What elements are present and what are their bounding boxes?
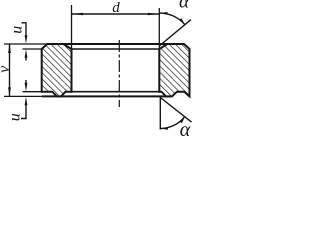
alpha bottom dimension arc [160,117,184,129]
wire bottom inner chamfer line C left extension [23,91,42,93]
arrowhead v top [8,44,11,53]
wire top outer edge line A [47,43,184,45]
arrowhead alpha top arc right [179,18,185,24]
right cut section with top chamfers, bottom bead tooth and outer foot, hatched [159,44,189,96]
extension line right bore edge for d and alpha [158,8,160,92]
svg-text:u: u [7,113,24,121]
arrowhead d right [148,13,159,16]
arrowhead alpha bottom arc left [161,127,168,130]
alpha top dimension arc [159,13,185,25]
arrowhead u bottom pointing down at line C [25,83,28,92]
dimension line d [72,13,160,15]
arrowhead v bottom [8,87,11,96]
arrowhead u top pointing up at line B [25,49,28,58]
wire bottom outer edge line D [42,95,172,97]
wire top inner chamfer line B across bore [72,48,160,50]
alpha top chamfer slant line [159,20,191,46]
svg-text:u: u [9,26,26,34]
u bottom leader stub [21,104,26,119]
arrowhead u top pointing down at line A [25,35,28,44]
wire top inner chamfer line B left extension [23,48,42,50]
svg-text:α: α [180,119,191,141]
wire bottom outer edge line D extension [4,95,42,97]
arrowhead u bottom pointing up at line D [25,97,28,106]
u bottom arrow stem above C [25,80,27,86]
arrowhead alpha top arc left [160,12,168,15]
dimension line v [9,44,11,96]
svg-text:d: d [112,0,120,16]
wire bottom inner chamfer line C across bore [72,91,160,93]
extension line left bore edge for d [71,5,73,92]
alpha bottom chamfer slant line [160,98,191,123]
svg-text:α: α [179,0,190,12]
svg-text:v: v [0,65,13,73]
u top leader stub [22,23,27,37]
wire top outer edge line A extension [4,43,47,45]
u top arrow stem below B [25,55,27,61]
left cut section with top chamfers and bottom bead tooth, hatched [42,44,72,96]
arrowhead d left [72,13,83,16]
arrowhead alpha bottom arc right [180,117,185,124]
alpha bottom vertical reference line [159,97,161,130]
center line axis dash-dot [118,40,120,107]
